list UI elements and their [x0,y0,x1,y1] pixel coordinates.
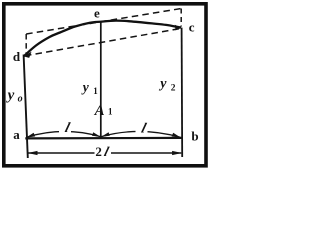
svg-text:c: c [189,20,195,35]
svg-text:1: 1 [93,86,98,96]
svg-text:y: y [6,88,15,104]
svg-text:A: A [94,103,105,119]
svg-text:y: y [81,80,90,95]
svg-text:a: a [13,127,20,142]
middle vertical (ordinate y1 line) [100,22,102,139]
right vertical b-c (ordinate y2 line) [181,28,184,157]
arrowhead at d end of curve [24,52,32,58]
label l right span [136,121,148,133]
arrowhead at c end of curve [175,25,182,31]
left vertical a-d (ordinate y0 line) [24,55,28,159]
svg-text:y: y [158,77,167,92]
svg-text:d: d [13,49,21,64]
svg-text:o: o [18,93,23,104]
arrowhead of left l arc at midpoint [92,132,101,137]
baseline a-b [25,137,183,140]
svg-text:b: b [191,128,198,143]
dashed vertical above c [180,9,182,27]
svg-text:e: e [94,6,100,21]
2l dimension line right segment [111,152,181,154]
svg-text:1: 1 [108,107,113,117]
arrowhead of left l arc at a [26,133,35,138]
svg-text:2: 2 [171,83,176,93]
dashed vertical above d [25,34,27,54]
left l dimension arc a to midpoint [27,131,101,137]
right l dimension arc midpoint to b [101,131,180,137]
dashed chord d-c [25,29,181,56]
arrowhead of right l arc at b [172,133,181,138]
2l dimension line left segment [28,152,94,154]
label l left span [59,121,71,133]
curve d-e-c (parabolic arc) [24,21,181,56]
dashed tangent line (top, parallel to chord) [26,9,181,35]
svg-text:2: 2 [95,144,102,159]
arrowhead of right l arc at midpoint [101,132,110,137]
left arrowhead of 2l dimension [28,151,38,155]
right arrowhead of 2l dimension [172,151,182,155]
border frame [4,4,206,166]
